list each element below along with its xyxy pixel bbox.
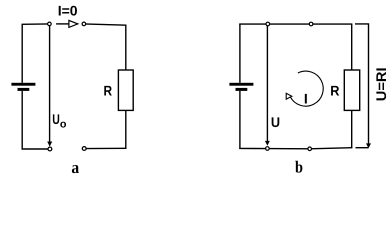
node : circuit b bottom left junction bbox=[266, 147, 270, 151]
wire : circuit a, left vertical (battery branch) bbox=[21, 24, 23, 149]
label Uo bbox=[52, 111, 67, 131]
wire : circuit b, left vertical (battery branch) bbox=[239, 24, 241, 148]
wire : circuit b, bottom wire bbox=[239, 148, 352, 149]
node : circuit a top right terminal bbox=[82, 22, 86, 26]
wire : circuit a, bottom right segment bbox=[84, 147, 126, 149]
voltage arrow U (circuit b, middle vertical) bbox=[265, 25, 270, 146]
current arrow I=0 (circuit a, top) bbox=[56, 20, 78, 27]
wire : circuit a, right vertical (resistor branch) bbox=[125, 25, 127, 149]
svg-text:R: R bbox=[104, 82, 113, 98]
svg-text:U=RI: U=RI bbox=[373, 67, 389, 101]
svg-text:o: o bbox=[60, 119, 67, 131]
resistor R (circuit a) bbox=[118, 70, 133, 110]
svg-text:I: I bbox=[304, 91, 308, 107]
arrowhead of U=RI bbox=[366, 143, 371, 148]
voltage arrow Uo (circuit a, middle vertical) bbox=[47, 25, 52, 147]
svg-text:U: U bbox=[52, 111, 60, 127]
node : circuit b top left junction bbox=[266, 22, 270, 26]
battery V1 (circuit a) bbox=[11, 83, 35, 91]
svg-text:b: b bbox=[295, 158, 303, 177]
battery V2 (circuit b) bbox=[229, 83, 253, 91]
wire : circuit b, top wire bbox=[239, 23, 352, 25]
node : circuit a top left terminal bbox=[48, 22, 52, 26]
svg-text:I=0: I=0 bbox=[58, 3, 78, 19]
wire : circuit a, bottom left segment bbox=[22, 148, 50, 150]
resistor R (circuit b) bbox=[344, 70, 359, 110]
wire : circuit b, right vertical (resistor branch) bbox=[351, 24, 353, 148]
wire : circuit a, top right segment bbox=[84, 24, 127, 25]
node : circuit b top right terminal bbox=[309, 22, 313, 26]
node : circuit a bottom left terminal bbox=[48, 147, 52, 151]
voltage arrow U=RI bracket (circuit b, right side) bbox=[355, 24, 369, 148]
node : circuit a bottom right terminal bbox=[82, 147, 86, 151]
wire : circuit a, top left segment bbox=[22, 23, 50, 25]
svg-text:a: a bbox=[71, 158, 79, 177]
node : circuit b bottom right terminal bbox=[308, 147, 312, 151]
mesh current loop arrow I (circuit b) bbox=[286, 71, 323, 106]
svg-text:U: U bbox=[271, 114, 280, 130]
svg-text:R: R bbox=[330, 82, 339, 98]
